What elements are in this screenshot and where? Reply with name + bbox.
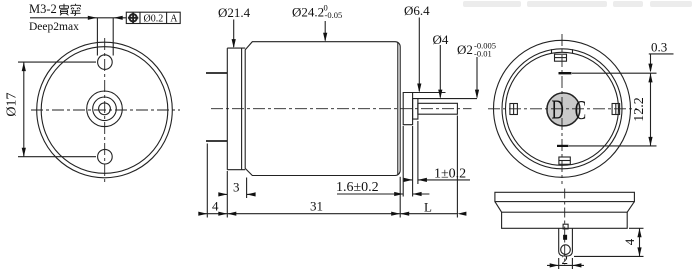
dim line 1.6±0.2 — [337, 193, 429, 195]
terminal pin upper — [206, 72, 227, 74]
dim line 4 vertical — [639, 228, 641, 256]
arrow Ø24.2 — [323, 33, 327, 42]
svg-text:Ø17: Ø17 — [5, 92, 20, 116]
collar top extension line — [418, 98, 477, 100]
arrow 3 right — [247, 192, 256, 196]
ext line shaft-end down — [456, 116, 458, 218]
cap slab rectangle — [502, 212, 628, 228]
svg-text:Ø2: Ø2 — [457, 42, 473, 57]
svg-text:1±0.2: 1±0.2 — [434, 167, 466, 182]
svg-text:-0.05: -0.05 — [325, 10, 343, 20]
dim line 2 — [547, 264, 584, 266]
arrow 4-right / 31-left pair — [218, 212, 227, 216]
arrow 1 right — [418, 178, 427, 182]
arrow 31-right / L-left pair — [391, 212, 400, 216]
arrow 4 left — [198, 212, 207, 216]
brush tab right — [612, 104, 620, 115]
front view inner circle — [41, 47, 168, 174]
brush tab left — [510, 104, 518, 115]
rear horizontal centerline — [488, 108, 637, 110]
12.2 dim line — [650, 73, 652, 146]
leader Ø21.4 — [233, 20, 235, 48]
svg-text:Ø24.2: Ø24.2 — [292, 5, 324, 20]
hanzi 穿 — [71, 4, 81, 16]
ext line body-left chamfer down — [246, 178, 248, 199]
position symbol — [129, 14, 136, 21]
arrow 4 top — [637, 228, 641, 237]
motor body outline — [245, 42, 400, 176]
Ø17 dimension line — [23, 62, 25, 157]
dim line 4 / 31 / L — [199, 213, 458, 215]
leader Ø24.2 — [324, 21, 326, 41]
svg-text:2: 2 — [562, 252, 569, 267]
faint watermark band top right — [463, 1, 692, 7]
0.3 underline — [649, 53, 674, 55]
arrow 12.2 top — [648, 73, 652, 82]
ext line cap bottom right — [629, 227, 644, 229]
cap face rectangle — [495, 192, 635, 201]
arrow 3 left — [218, 192, 227, 196]
ext line pin-end down — [206, 144, 208, 218]
svg-text:Deep2max: Deep2max — [29, 21, 79, 33]
side view dimensions — [199, 116, 471, 218]
ext line pin right down — [571, 258, 573, 269]
arrow Ø21.4 — [232, 39, 236, 48]
rear ring circle 3 — [506, 52, 619, 165]
cap view centerline — [564, 189, 566, 266]
leader Ø2 — [476, 57, 478, 97]
M3 leader line — [30, 17, 126, 19]
arrow Ø4 — [438, 90, 442, 99]
brush tab bottom — [559, 157, 570, 164]
svg-text:0.3: 0.3 — [651, 40, 667, 55]
0.3 leader — [650, 54, 652, 71]
svg-text:3: 3 — [233, 180, 240, 195]
svg-text:A: A — [170, 13, 178, 24]
ext line boss-right down — [412, 126, 414, 197]
arrow 4 bottom — [637, 247, 641, 256]
ext line pin end right — [574, 255, 644, 257]
boss top extension line — [413, 92, 446, 94]
cap flare left — [495, 202, 502, 213]
arrow 12.2 bottom — [648, 137, 652, 146]
mounting hole bottom — [98, 149, 113, 164]
arrow Ø6.4 — [417, 84, 421, 93]
ext line collar-right down — [417, 121, 419, 184]
arrow 2 left — [550, 263, 559, 267]
front shaft circle Ø2 — [99, 103, 111, 115]
rear cap rectangle — [227, 48, 245, 170]
svg-text:Ø6.4: Ø6.4 — [404, 3, 430, 18]
svg-text:31: 31 — [310, 199, 323, 214]
front boss circle Ø6.4 — [87, 91, 123, 127]
boss rectangle Ø6.4 — [403, 93, 412, 125]
svg-text:Ø4: Ø4 — [433, 32, 449, 47]
top tab side ticks — [552, 49, 573, 53]
Ø17 arrow bottom — [22, 148, 26, 157]
arrow L-right — [457, 212, 466, 216]
leader Ø6.4 — [418, 18, 420, 92]
arrow 0.3 down — [648, 64, 652, 73]
ext line pin left down — [558, 258, 560, 269]
ext line slot upper — [572, 72, 657, 74]
front view outer circle — [37, 42, 173, 178]
side view centerline — [211, 108, 472, 110]
collar rectangle Ø4 — [413, 99, 418, 120]
svg-text:C: C — [575, 95, 586, 125]
arrow 1.6 right — [413, 192, 422, 196]
M3 leader arrow right-pointing — [88, 16, 97, 20]
Ø17 arrow top — [22, 62, 26, 71]
svg-text:-0.01: -0.01 — [474, 49, 492, 59]
arrow Ø2 — [475, 90, 479, 99]
body seam line — [397, 43, 399, 175]
ext line body-right down — [399, 177, 401, 218]
cap flare right — [627, 202, 634, 213]
pin hole — [561, 245, 571, 255]
arrow 2 right — [572, 263, 581, 267]
svg-text:Ø0.2: Ø0.2 — [144, 13, 164, 24]
svg-text:4: 4 — [622, 238, 637, 245]
svg-text:L: L — [424, 200, 432, 215]
rear ring circle 2 — [502, 49, 622, 169]
arrow 1.6 left — [394, 192, 403, 196]
Ø17 extension line top — [18, 61, 96, 63]
svg-text:12.2: 12.2 — [632, 97, 647, 122]
svg-text:Ø21.4: Ø21.4 — [218, 5, 251, 20]
terminal pin lower — [206, 140, 227, 142]
rear outer circle — [494, 40, 631, 177]
vent slot lower — [557, 145, 569, 147]
hole projection line right — [112, 18, 114, 56]
Ø17 extension line bottom — [18, 156, 96, 158]
front view horizontal centerline — [31, 109, 180, 111]
hanzi 贯 — [60, 4, 69, 16]
brush tab top — [555, 54, 567, 61]
rear vertical centerline — [561, 34, 563, 184]
svg-text:1.6±0.2: 1.6±0.2 — [336, 180, 379, 195]
mounting hole top — [98, 55, 113, 70]
shaft rectangle Ø2 — [418, 103, 458, 114]
arrow 1 left — [404, 178, 413, 182]
hole projection line left — [96, 18, 98, 56]
leader Ø4 — [439, 45, 441, 97]
shaft circle with DC marking — [547, 93, 586, 126]
dim line 3 — [219, 193, 255, 195]
terminal pin outline — [559, 228, 573, 256]
feature control frame — [126, 12, 180, 23]
svg-text:4: 4 — [212, 199, 219, 214]
pin crimp square — [563, 235, 567, 240]
ext line boss-left down — [402, 126, 404, 197]
ext line cap-left down — [226, 171, 228, 218]
front view vertical centerline — [104, 38, 106, 183]
M3 leader arrow left-pointing — [114, 16, 123, 20]
vent slot upper — [559, 72, 572, 74]
pin slot upper — [563, 224, 568, 229]
front collar circle Ø4 — [93, 97, 117, 121]
ext line slot lower — [569, 145, 657, 147]
svg-text:M3-2: M3-2 — [29, 2, 57, 16]
dim line 1±0.2 — [404, 179, 470, 181]
